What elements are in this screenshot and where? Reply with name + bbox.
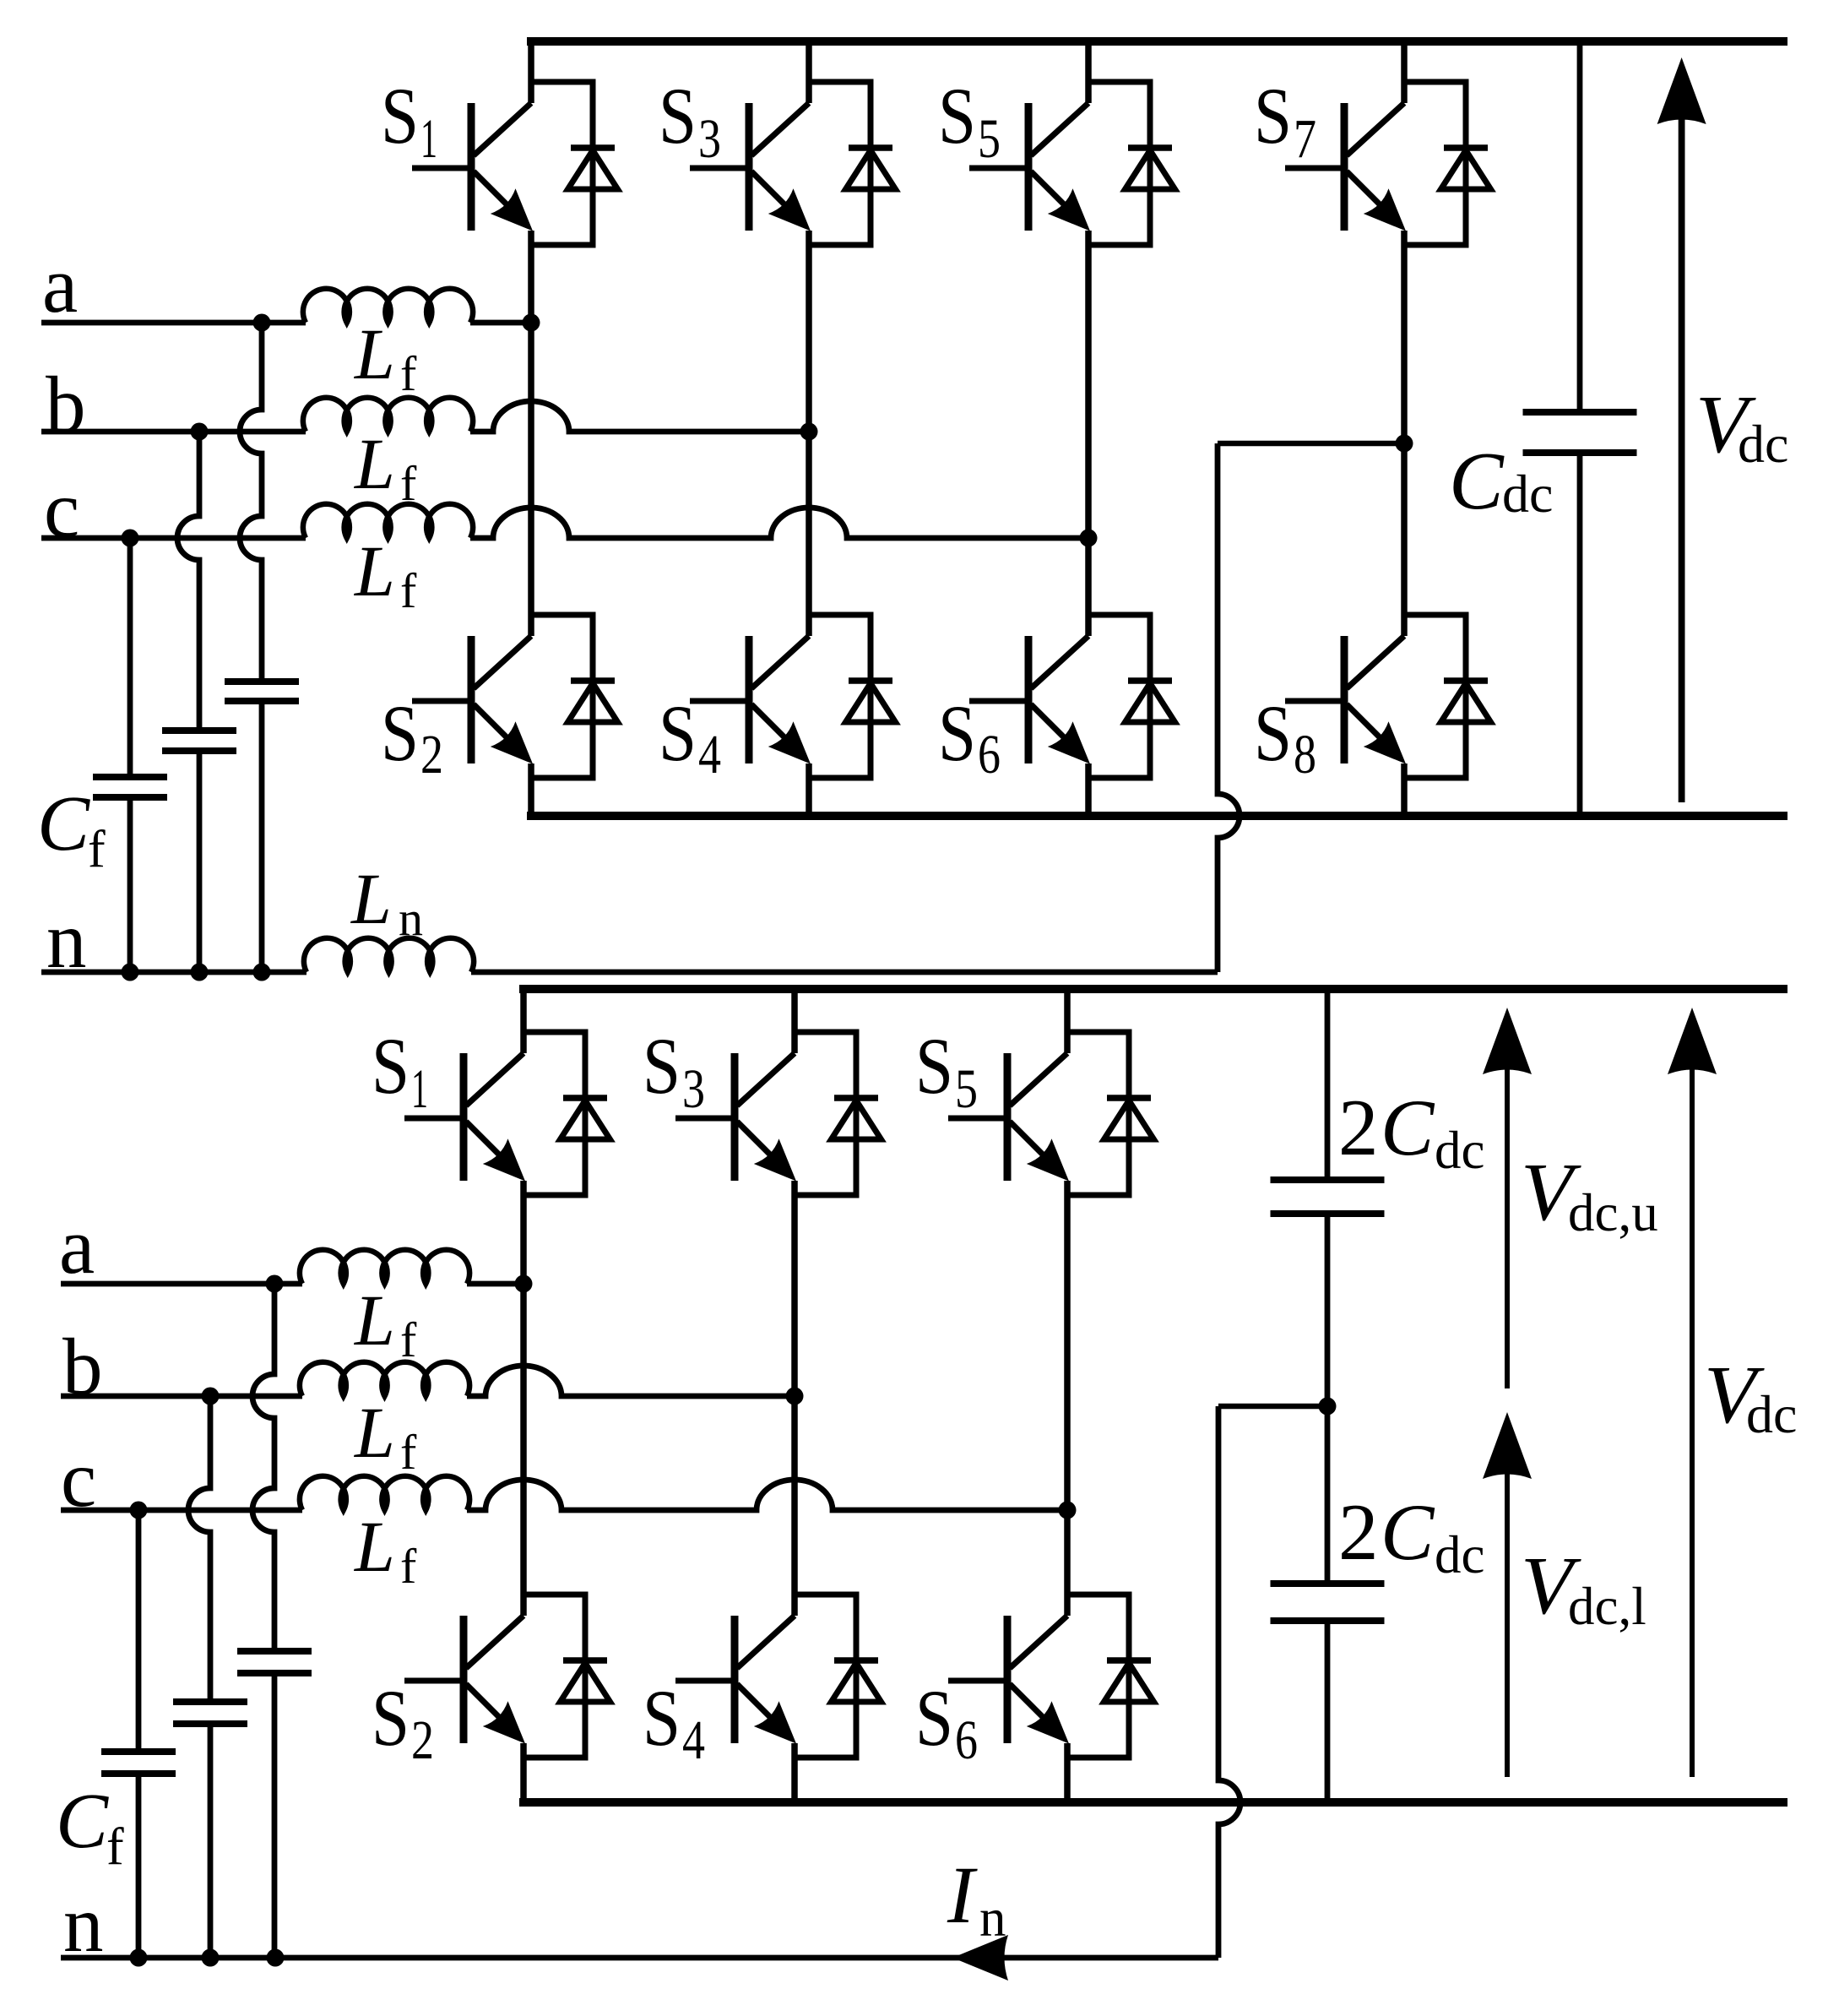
svg-text:n: n bbox=[46, 895, 87, 985]
svg-text:c: c bbox=[61, 1434, 96, 1524]
svg-text:S: S bbox=[643, 1673, 681, 1763]
svg-text:4: 4 bbox=[698, 724, 721, 785]
svg-text:2: 2 bbox=[1338, 1083, 1379, 1172]
svg-text:b: b bbox=[62, 1322, 103, 1411]
svg-text:5: 5 bbox=[955, 1058, 978, 1120]
svg-text:S: S bbox=[938, 71, 976, 160]
svg-text:L: L bbox=[353, 530, 395, 611]
svg-text:dc: dc bbox=[1746, 1384, 1797, 1444]
svg-text:f: f bbox=[400, 1312, 417, 1367]
svg-text:dc,u: dc,u bbox=[1568, 1183, 1658, 1242]
svg-text:6: 6 bbox=[978, 724, 1001, 785]
svg-text:b: b bbox=[46, 360, 86, 449]
svg-text:S: S bbox=[643, 1021, 681, 1111]
svg-text:dc: dc bbox=[1435, 1121, 1484, 1180]
svg-text:C: C bbox=[37, 780, 90, 867]
svg-text:f: f bbox=[400, 346, 417, 401]
svg-text:L: L bbox=[353, 313, 395, 394]
svg-text:f: f bbox=[88, 821, 106, 878]
svg-text:L: L bbox=[353, 1392, 395, 1473]
svg-text:a: a bbox=[59, 1201, 95, 1291]
svg-text:C: C bbox=[56, 1778, 109, 1865]
svg-text:dc,l: dc,l bbox=[1568, 1577, 1646, 1636]
svg-text:S: S bbox=[915, 1021, 953, 1111]
svg-text:S: S bbox=[1254, 688, 1292, 778]
svg-text:a: a bbox=[42, 240, 78, 329]
svg-text:5: 5 bbox=[978, 108, 1001, 170]
svg-text:c: c bbox=[44, 465, 79, 554]
svg-text:f: f bbox=[400, 1425, 417, 1480]
svg-text:S: S bbox=[659, 688, 697, 778]
svg-text:dc: dc bbox=[1738, 414, 1788, 474]
svg-text:L: L bbox=[353, 1280, 395, 1361]
svg-text:S: S bbox=[381, 71, 419, 160]
svg-text:n: n bbox=[63, 1879, 104, 1969]
svg-text:I: I bbox=[947, 1850, 978, 1940]
svg-text:S: S bbox=[938, 688, 976, 778]
svg-text:3: 3 bbox=[682, 1058, 705, 1120]
svg-text:L: L bbox=[353, 423, 395, 504]
svg-text:dc: dc bbox=[1502, 464, 1553, 524]
svg-text:S: S bbox=[915, 1673, 953, 1763]
svg-text:8: 8 bbox=[1294, 724, 1316, 785]
svg-text:6: 6 bbox=[955, 1709, 978, 1771]
svg-text:2: 2 bbox=[420, 724, 443, 785]
svg-text:L: L bbox=[353, 1506, 395, 1587]
svg-text:S: S bbox=[659, 71, 697, 160]
svg-text:S: S bbox=[372, 1673, 410, 1763]
svg-text:f: f bbox=[400, 1539, 417, 1594]
svg-text:7: 7 bbox=[1294, 108, 1316, 170]
svg-text:1: 1 bbox=[420, 108, 437, 170]
svg-text:n: n bbox=[399, 891, 423, 946]
svg-text:S: S bbox=[1254, 71, 1292, 160]
svg-text:f: f bbox=[400, 563, 417, 618]
svg-text:f: f bbox=[106, 1818, 124, 1876]
svg-text:C: C bbox=[1381, 1083, 1435, 1172]
svg-text:4: 4 bbox=[682, 1709, 705, 1771]
svg-text:2: 2 bbox=[1338, 1487, 1379, 1577]
svg-text:2: 2 bbox=[411, 1709, 434, 1771]
svg-text:S: S bbox=[381, 688, 419, 778]
svg-text:L: L bbox=[350, 858, 392, 939]
svg-text:dc: dc bbox=[1435, 1525, 1484, 1584]
svg-text:3: 3 bbox=[698, 108, 721, 170]
svg-text:C: C bbox=[1449, 436, 1505, 526]
svg-text:S: S bbox=[372, 1021, 410, 1111]
svg-text:1: 1 bbox=[411, 1058, 428, 1120]
svg-text:n: n bbox=[979, 1888, 1006, 1948]
svg-text:C: C bbox=[1381, 1487, 1435, 1577]
svg-text:f: f bbox=[400, 456, 417, 511]
